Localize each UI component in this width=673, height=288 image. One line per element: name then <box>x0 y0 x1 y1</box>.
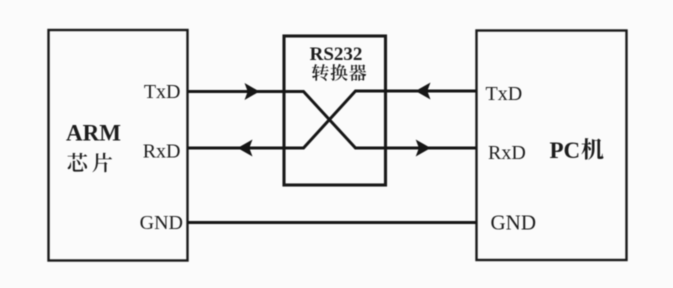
svg-text:PC: PC <box>550 138 581 163</box>
svg-text:RS232: RS232 <box>310 44 363 65</box>
svg-text:GND: GND <box>491 211 537 235</box>
svg-text:TxD: TxD <box>144 81 181 103</box>
svg-text:RxD: RxD <box>488 142 526 164</box>
svg-text:TxD: TxD <box>486 83 523 105</box>
svg-text:ARM: ARM <box>66 121 121 146</box>
svg-text:GND: GND <box>140 212 183 234</box>
svg-text:RxD: RxD <box>143 141 181 163</box>
